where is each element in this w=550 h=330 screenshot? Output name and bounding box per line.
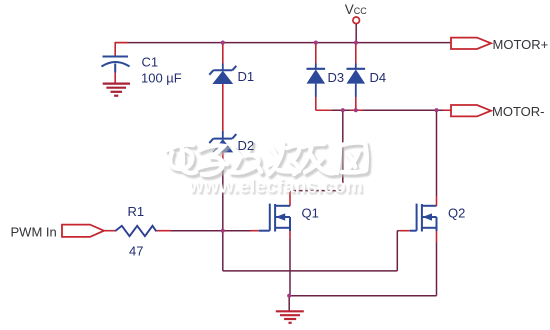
wire Q1 source lead	[289, 231, 291, 296]
diode D3	[307, 43, 326, 111]
ground (main)	[276, 311, 304, 323]
svg-text:PWM In: PWM In	[11, 224, 57, 239]
svg-text:C1: C1	[142, 55, 159, 70]
svg-text:MOTOR+: MOTOR+	[493, 37, 549, 52]
connector MOTOR+	[451, 38, 491, 49]
wire ground stem	[288, 296, 290, 311]
svg-text:Q1: Q1	[302, 206, 319, 221]
diode D4	[347, 43, 366, 111]
svg-text:D4: D4	[370, 70, 387, 85]
wire lower gate run to Q2	[223, 231, 410, 271]
arrow Q2 body	[422, 213, 432, 220]
svg-text:D2: D2	[238, 138, 255, 153]
svg-text:www.elecfans.com: www.elecfans.com	[188, 177, 363, 198]
wire jog rail2 to Q1 drain	[290, 110, 343, 206]
wire MOTOR- rail	[316, 109, 451, 111]
connector MOTOR-	[451, 105, 491, 116]
watermark chinese characters	[167, 142, 369, 178]
wire top rail	[115, 42, 451, 44]
ground (C1)	[103, 84, 130, 96]
label Vcc	[345, 2, 367, 17]
wire D1 branch	[222, 43, 224, 231]
svg-text:D3: D3	[328, 70, 345, 85]
svg-text:R1: R1	[128, 204, 145, 219]
svg-text:47: 47	[129, 244, 143, 259]
svg-text:Q2: Q2	[448, 206, 465, 221]
svg-text:CC: CC	[354, 6, 367, 16]
zener diode D2	[209, 134, 236, 152]
svg-text:100 µF: 100 µF	[141, 71, 182, 86]
svg-text:D1: D1	[238, 69, 255, 84]
wire Q2 source lead	[289, 231, 436, 296]
transistor Q2	[410, 204, 437, 232]
connector PWM In	[62, 225, 104, 237]
node Vcc terminal	[353, 17, 360, 43]
node junction dots	[221, 41, 439, 298]
resistor R1	[115, 226, 156, 236]
wire gate net horizontal	[104, 230, 259, 232]
capacitor C1	[102, 42, 130, 83]
wire Q2 drain lead	[436, 110, 438, 206]
svg-text:V: V	[345, 2, 354, 17]
svg-text:MOTOR-: MOTOR-	[492, 104, 544, 119]
arrow Q1 body	[276, 213, 286, 220]
transistor Q1	[259, 204, 290, 232]
watermark url	[188, 177, 365, 200]
zener diode D1	[209, 66, 236, 84]
